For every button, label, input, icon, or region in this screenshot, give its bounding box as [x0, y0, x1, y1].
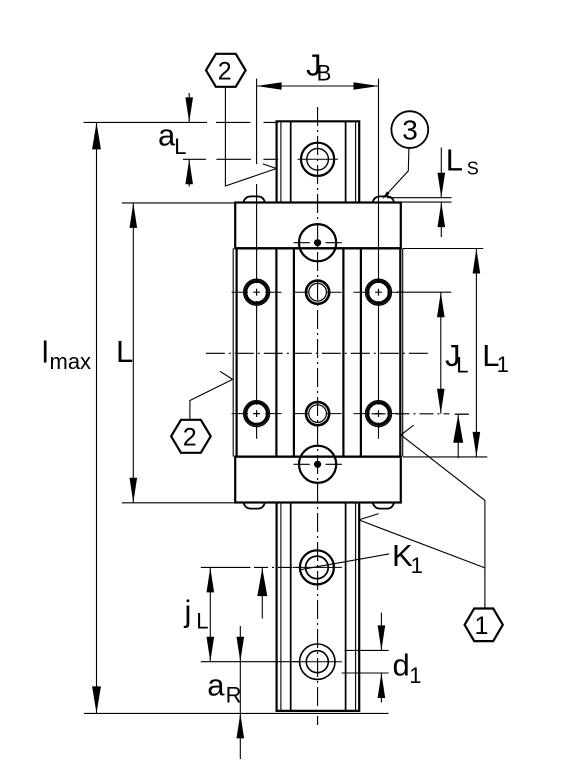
dimension JB	[257, 85, 379, 87]
leader K1	[299, 554, 389, 570]
seal bump top right	[373, 196, 394, 202]
screw hole A4 (right bottom)	[354, 401, 404, 427]
seal bump bottom right	[373, 503, 394, 509]
svg-text:d: d	[393, 647, 410, 682]
carriage body thin side lines	[233, 248, 403, 456]
svg-text:L: L	[174, 134, 186, 159]
dimension L	[122, 203, 235, 503]
svg-text:L: L	[196, 608, 208, 633]
svg-text:j: j	[184, 593, 192, 628]
rail hole d1	[300, 644, 335, 679]
vertical centerline	[317, 107, 319, 725]
svg-text:2: 2	[218, 57, 232, 85]
svg-text:L: L	[456, 353, 468, 378]
dimension lmax	[84, 122, 389, 713]
rail bottom end	[276, 710, 361, 712]
svg-text:1: 1	[409, 663, 421, 688]
screw hole B1 (middle top)	[294, 281, 342, 304]
dimension L1	[403, 249, 487, 457]
seal bump bottom left	[244, 503, 265, 509]
svg-text:L: L	[116, 334, 133, 369]
JB extension / hole column line right	[378, 79, 380, 439]
rail top end	[276, 120, 361, 122]
svg-text:B: B	[317, 61, 332, 86]
dimension d1	[342, 613, 389, 703]
lone arrow right (points at row-2 tick)	[457, 415, 459, 458]
screw hole A3 (left bottom)	[232, 401, 282, 427]
lube port top	[299, 224, 336, 261]
dimension JL (carriage)	[372, 292, 469, 414]
carriage main body	[237, 248, 401, 456]
callout hexagon 1	[465, 609, 503, 642]
screw hole B2 (middle bottom)	[294, 402, 342, 425]
callout circle 3	[391, 111, 428, 148]
screw hole A1 (left top)	[232, 279, 282, 305]
svg-text:3: 3	[402, 115, 418, 146]
svg-text:1: 1	[475, 612, 489, 640]
svg-text:1: 1	[497, 352, 509, 377]
svg-text:2: 2	[183, 423, 197, 451]
seal bump top left	[244, 196, 265, 202]
dimension jL (rail holes)	[201, 567, 299, 661]
svg-text:a: a	[207, 667, 225, 702]
rail groove lines	[291, 121, 346, 711]
svg-text:L: L	[446, 143, 463, 178]
svg-text:a: a	[158, 118, 176, 153]
dimension aR	[239, 626, 241, 759]
carriage inner vertical lines	[276, 248, 361, 456]
svg-text:1: 1	[411, 553, 423, 578]
rail outer edges	[277, 121, 360, 711]
dimension LS	[387, 148, 452, 238]
horizontal centerline of carriage	[206, 352, 429, 354]
rail top hole	[301, 143, 334, 176]
rail hole K1	[300, 550, 334, 584]
lube port bottom	[299, 446, 336, 483]
callout hexagon 2 left	[171, 420, 211, 453]
lone arrow left (points at K1 hole line)	[261, 568, 263, 618]
carriage top plate	[235, 203, 401, 249]
callout hexagon 2 top	[206, 54, 246, 87]
carriage bottom plate	[235, 457, 401, 503]
svg-text:max: max	[50, 349, 92, 374]
svg-text:l: l	[42, 334, 49, 369]
dimension aL	[84, 93, 279, 187]
screw hole A2 (right top)	[354, 279, 404, 305]
JB extension / hole column line left	[256, 79, 258, 439]
rail inner thin lines	[281, 121, 356, 711]
svg-text:R: R	[226, 683, 242, 708]
svg-text:S: S	[467, 159, 479, 179]
